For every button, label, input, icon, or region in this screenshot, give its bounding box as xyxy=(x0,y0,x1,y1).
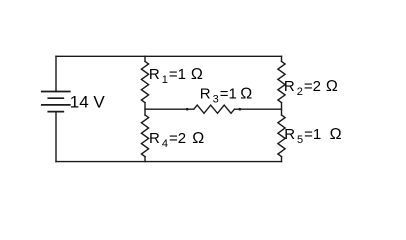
resistor R4 xyxy=(141,115,148,157)
wire middle horizontal right xyxy=(234,108,281,110)
wire left upper xyxy=(55,56,57,91)
wire left lower xyxy=(55,112,57,162)
wire right branch top stem xyxy=(281,56,283,61)
battery V1 plate long top xyxy=(42,91,70,93)
wire right branch mid stem xyxy=(281,103,283,115)
resistor R5 xyxy=(278,115,285,157)
wire right branch bottom stem xyxy=(281,157,283,162)
svg-text:R2=2Ω: R2=2Ω xyxy=(284,78,338,98)
battery V1 plate long lower xyxy=(42,104,70,106)
node R3 left pin xyxy=(186,108,189,111)
resistor R1 xyxy=(141,61,148,102)
svg-text:14 V: 14 V xyxy=(70,92,106,111)
wire top xyxy=(56,55,282,57)
svg-text:R1=1Ω: R1=1Ω xyxy=(149,66,203,86)
wire middle branch bottom stem xyxy=(144,157,146,162)
wire middle horizontal left xyxy=(145,108,194,110)
wire middle branch top stem xyxy=(144,56,146,61)
svg-text:R3=1Ω: R3=1Ω xyxy=(200,86,252,106)
battery V1 plate short xyxy=(48,97,63,99)
wire bottom xyxy=(56,161,282,163)
resistor R3 xyxy=(194,105,235,113)
wire middle branch mid stem xyxy=(144,103,146,115)
resistor R2 xyxy=(278,61,285,102)
node R3 right pin xyxy=(239,108,242,111)
battery V1 plate short bottom xyxy=(48,111,63,113)
